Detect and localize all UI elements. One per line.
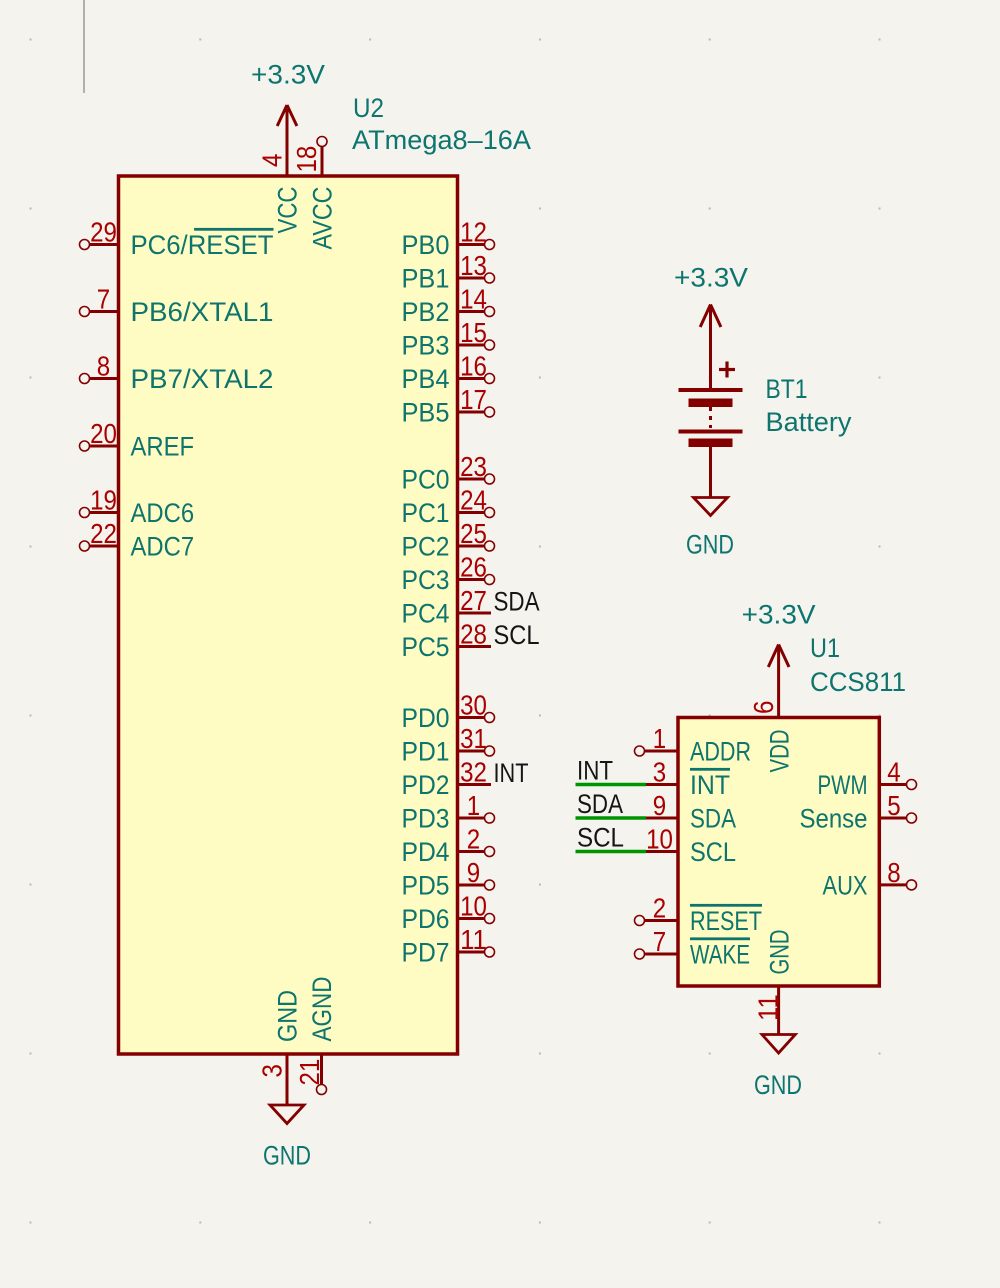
pin 29 PC6/RESET (U2 left) [80, 217, 274, 261]
IC U2 body [119, 176, 458, 1054]
pin 10 PD6 (U2 right) [402, 891, 495, 935]
svg-text:PC4: PC4 [402, 599, 450, 629]
pin 11 PD7 (U2 right) [402, 924, 495, 968]
pin 20 AREF (U2 left) [80, 418, 195, 462]
svg-text:18: 18 [291, 146, 322, 173]
svg-text:SCL: SCL [690, 837, 736, 867]
pin 7 PB6/XTAL1 (U2 left) [80, 284, 274, 328]
svg-text:5: 5 [887, 790, 900, 821]
svg-text:16: 16 [460, 351, 487, 382]
svg-text:ADC6: ADC6 [131, 498, 195, 528]
svg-text:INT: INT [577, 756, 613, 786]
pin 16 PB4 (U2 right) [402, 351, 495, 395]
svg-text:ADC7: ADC7 [131, 532, 195, 562]
svg-text:PC5: PC5 [402, 632, 450, 662]
svg-text:PD0: PD0 [402, 703, 450, 733]
svg-text:INT: INT [690, 770, 730, 800]
pin 7 WAKE (U1 left) [635, 926, 751, 970]
pin 4 PWM (U1 right) [818, 757, 917, 801]
svg-text:1: 1 [467, 790, 480, 821]
svg-text:PC2: PC2 [402, 532, 450, 562]
svg-text:GND: GND [764, 930, 794, 975]
svg-text:7: 7 [97, 284, 110, 315]
svg-text:22: 22 [90, 518, 117, 549]
pin 21 AGND (U2 bottom) [294, 977, 337, 1095]
IC U1 body [678, 718, 879, 987]
pin 17 PB5 (U2 right) [402, 384, 495, 428]
pin 23 PC0 (U2 right) [402, 451, 495, 495]
svg-text:11: 11 [460, 924, 487, 955]
pin 19 ADC6 (U2 left) [80, 485, 195, 529]
svg-text:4: 4 [257, 154, 288, 167]
pin 8 PB7/XTAL2 (U2 left) [80, 351, 274, 395]
svg-text:23: 23 [460, 451, 487, 482]
svg-text:PC3: PC3 [402, 565, 450, 595]
power symbol +3.3V arrow (battery) [700, 305, 721, 390]
svg-text:VDD: VDD [764, 730, 794, 773]
pin 13 PB1 (U2 right) [402, 250, 495, 294]
pin 2 RESET (U1 left) [635, 893, 763, 937]
svg-text:PD1: PD1 [402, 737, 450, 767]
ground symbol (battery) [694, 498, 728, 516]
svg-text:9: 9 [467, 857, 480, 888]
pin 11 GND (U1 bottom) with GND symbol [753, 930, 796, 1054]
svg-text:PC6/RESET: PC6/RESET [131, 230, 274, 260]
svg-text:20: 20 [90, 418, 117, 449]
pin 25 PC2 (U2 right) [402, 518, 495, 562]
svg-text:ADDR: ADDR [690, 737, 751, 767]
svg-text:10: 10 [646, 824, 673, 855]
svg-text:3: 3 [257, 1064, 288, 1077]
pin 10 SCL (U1 left) [645, 824, 737, 868]
svg-text:30: 30 [460, 690, 487, 721]
pin 3 INT (U1 left) [645, 757, 731, 801]
pin 2 PD4 (U2 right) [402, 824, 495, 868]
svg-text:PC0: PC0 [402, 465, 450, 495]
svg-text:SDA: SDA [690, 804, 736, 834]
svg-text:PB7/XTAL2: PB7/XTAL2 [131, 364, 274, 394]
svg-text:8: 8 [97, 351, 110, 382]
svg-text:PB5: PB5 [402, 398, 450, 428]
pin 28 PC5 (U2 right) [402, 619, 492, 663]
svg-text:GND: GND [273, 990, 303, 1042]
svg-text:1: 1 [653, 723, 666, 754]
svg-text:RESET: RESET [690, 906, 762, 936]
svg-text:PB4: PB4 [402, 364, 450, 394]
pin 26 PC3 (U2 right) [402, 552, 495, 596]
svg-text:13: 13 [460, 250, 487, 281]
svg-text:BT1: BT1 [766, 374, 808, 404]
svg-text:GND: GND [754, 1070, 802, 1100]
pin 31 PD1 (U2 right) [402, 723, 495, 767]
pin 8 AUX (U1 right) [823, 857, 917, 901]
svg-text:19: 19 [90, 485, 117, 516]
svg-text:+3.3V: +3.3V [251, 60, 325, 90]
svg-text:7: 7 [653, 926, 666, 957]
svg-text:PD4: PD4 [402, 837, 450, 867]
pin 24 PC1 (U2 right) [402, 485, 495, 529]
pin 18 AVCC (U2 top) [291, 137, 338, 250]
wire battery to GND [709, 447, 712, 498]
wire INT to U1 pin 3 [576, 783, 647, 787]
svg-text:PD7: PD7 [402, 938, 450, 968]
pin 3 GND (U2 bottom) with GND symbol [257, 990, 305, 1124]
pin 9 PD5 (U2 right) [402, 857, 495, 901]
pin 30 PD0 (U2 right) [402, 690, 495, 734]
pin 9 SDA (U1 left) [645, 790, 737, 834]
svg-text:PD6: PD6 [402, 904, 450, 934]
svg-text:INT: INT [494, 758, 529, 788]
svg-text:GND: GND [686, 530, 734, 560]
svg-text:GND: GND [263, 1141, 311, 1171]
battery BT1 plus mark [719, 362, 735, 378]
svg-text:8: 8 [887, 857, 900, 888]
svg-text:2: 2 [467, 824, 480, 855]
svg-text:PWM: PWM [818, 770, 868, 800]
svg-text:29: 29 [90, 217, 117, 248]
pin 1 ADDR (U1 left) [635, 723, 752, 767]
svg-text:+3.3V: +3.3V [742, 600, 816, 630]
svg-text:28: 28 [460, 619, 487, 650]
svg-text:4: 4 [887, 757, 900, 788]
svg-text:11: 11 [753, 994, 784, 1021]
svg-text:PB2: PB2 [402, 297, 450, 327]
svg-text:U1: U1 [810, 633, 840, 663]
svg-text:VCC: VCC [273, 187, 303, 234]
svg-text:PB0: PB0 [402, 230, 450, 260]
svg-text:14: 14 [460, 284, 487, 315]
pin 4 VCC (U2 top) with +3.3V power [257, 105, 303, 234]
svg-text:12: 12 [460, 217, 487, 248]
svg-text:32: 32 [460, 757, 487, 788]
svg-text:PD3: PD3 [402, 804, 450, 834]
svg-text:PD5: PD5 [402, 871, 450, 901]
pin 22 ADC7 (U2 left) [80, 518, 195, 562]
wire SCL to U1 pin 10 [576, 850, 647, 854]
svg-text:PB6/XTAL1: PB6/XTAL1 [131, 297, 274, 327]
svg-text:WAKE: WAKE [690, 940, 750, 970]
svg-text:SCL: SCL [577, 823, 624, 853]
svg-text:Battery: Battery [766, 407, 852, 437]
svg-text:PB3: PB3 [402, 331, 450, 361]
svg-text:PC1: PC1 [402, 498, 450, 528]
svg-text:U2: U2 [353, 93, 384, 123]
svg-text:PB1: PB1 [402, 264, 450, 294]
pin 32 PD2 (U2 right) [402, 757, 492, 801]
wire SDA to U1 pin 9 [576, 816, 647, 820]
svg-text:6: 6 [748, 701, 779, 714]
svg-text:AVCC: AVCC [308, 187, 338, 250]
pin 5 Sense (U1 right) [800, 790, 917, 834]
pin 27 PC4 (U2 right) [402, 585, 492, 629]
svg-text:26: 26 [460, 552, 487, 583]
svg-text:Sense: Sense [800, 804, 868, 834]
svg-text:SDA: SDA [577, 789, 623, 819]
svg-text:31: 31 [460, 723, 487, 754]
svg-text:10: 10 [460, 891, 487, 922]
pin 12 PB0 (U2 right) [402, 217, 495, 261]
svg-text:AGND: AGND [307, 977, 337, 1042]
svg-text:9: 9 [653, 790, 666, 821]
svg-text:+3.3V: +3.3V [674, 263, 748, 293]
battery BT1 cells [679, 388, 743, 447]
pin 14 PB2 (U2 right) [402, 284, 495, 328]
svg-text:24: 24 [460, 485, 487, 516]
svg-text:AUX: AUX [823, 871, 868, 901]
svg-text:15: 15 [460, 317, 487, 348]
svg-text:25: 25 [460, 518, 487, 549]
svg-text:3: 3 [653, 757, 666, 788]
svg-text:21: 21 [294, 1059, 325, 1086]
svg-text:PD2: PD2 [402, 770, 450, 800]
svg-text:SDA: SDA [494, 587, 540, 617]
pin 1 PD3 (U2 right) [402, 790, 495, 834]
svg-text:CCS811: CCS811 [810, 667, 906, 697]
svg-text:AREF: AREF [131, 432, 195, 462]
svg-text:ATmega8–16A: ATmega8–16A [352, 125, 531, 155]
svg-text:2: 2 [653, 893, 666, 924]
pin 15 PB3 (U2 right) [402, 317, 495, 361]
svg-text:27: 27 [460, 585, 487, 616]
svg-text:17: 17 [460, 384, 487, 415]
pin 6 VDD (U1 top) with +3.3V power [748, 645, 794, 773]
svg-text:SCL: SCL [494, 620, 540, 650]
